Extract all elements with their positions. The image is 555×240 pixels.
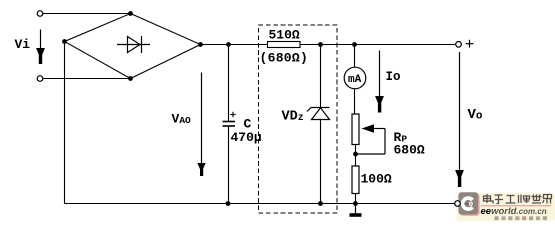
glyph gong xyxy=(506,196,516,204)
node: capacitor bottom junction xyxy=(226,201,231,206)
logo red underline xyxy=(481,205,551,206)
svg-text:mA: mA xyxy=(348,74,362,86)
eeworld logo background xyxy=(457,193,555,221)
wire bridge right vertex to resistor 510 xyxy=(201,44,268,46)
wire resistor 510 to + output terminal xyxy=(300,44,455,46)
glyph zi xyxy=(495,195,504,204)
node: ammeter branch top junction xyxy=(352,42,357,47)
svg-text:(680Ω): (680Ω) xyxy=(260,51,309,66)
svg-text:510Ω: 510Ω xyxy=(269,28,300,43)
Rp wiper arrow xyxy=(356,124,386,154)
glyph dian xyxy=(484,194,494,204)
svg-text:680Ω: 680Ω xyxy=(394,143,425,158)
logo icon gray square xyxy=(459,192,479,214)
node: zener bottom junction xyxy=(318,201,323,206)
glyph shi xyxy=(532,195,542,204)
logo icon pink shadow xyxy=(460,194,480,216)
wire capacitor top lead xyxy=(228,45,230,122)
glyph cheng xyxy=(519,195,530,204)
svg-text:100Ω: 100Ω xyxy=(361,172,392,187)
logo icon white C xyxy=(461,196,474,211)
logo chinese title: pseudo glyphs 电子工程世界 xyxy=(484,194,552,204)
input terminal bottom xyxy=(37,76,43,82)
wire bottom input to bridge bottom vertex xyxy=(43,78,129,80)
node: bridge bottom vertex xyxy=(128,76,133,81)
ground xyxy=(350,203,362,217)
output terminal + (top right) xyxy=(456,42,462,48)
node: capacitor top junction xyxy=(226,42,231,47)
wire ammeter top lead xyxy=(354,45,356,68)
input terminal top xyxy=(37,11,43,17)
zener diode VDz xyxy=(307,108,330,120)
node: bridge right vertex xyxy=(198,42,203,47)
wire ammeter to Rp xyxy=(354,89,356,115)
resistor R 510 body xyxy=(268,42,301,48)
label + (output polarity) xyxy=(466,40,474,48)
wire zener bottom lead xyxy=(320,120,322,204)
wire bridge left vertex down to bottom rail xyxy=(64,42,66,204)
wire zener top lead xyxy=(320,45,322,108)
bottom rail wire xyxy=(65,203,455,205)
glyph jie xyxy=(543,195,552,204)
node: zener top junction xyxy=(318,42,323,47)
node: ground junction xyxy=(353,201,358,206)
svg-text:eeworld.com.cn: eeworld.com.cn xyxy=(481,206,547,217)
wire Rp bottom to junction node xyxy=(355,145,357,167)
Vo annotation arrow xyxy=(455,52,464,187)
diode inside bridge xyxy=(117,36,150,53)
capacitor polarity + xyxy=(230,112,235,117)
output terminal bottom right xyxy=(455,201,461,207)
bridge rectifier diamond xyxy=(65,14,201,79)
wire top input to bridge top vertex xyxy=(43,13,129,15)
capacitor C plates xyxy=(223,122,236,127)
svg-text:Io: Io xyxy=(386,70,401,84)
resistor 100 ohm body xyxy=(352,166,359,194)
logo icon eye ring xyxy=(469,202,473,206)
svg-text:Vi: Vi xyxy=(15,37,31,52)
node: Rp wiper junction xyxy=(353,152,358,157)
ammeter mA xyxy=(344,67,366,89)
potentiometer Rp body xyxy=(352,114,359,145)
Io annotation arrow xyxy=(375,51,384,113)
wire stub visible through logo xyxy=(465,203,475,204)
Vi annotation arrow xyxy=(36,30,45,65)
wire 100 ohm to bottom rail xyxy=(355,194,357,204)
logo tiny slogan dashes xyxy=(495,216,548,220)
svg-text:470µ: 470µ xyxy=(231,130,262,145)
node: bridge left vertex xyxy=(62,39,67,44)
node: bridge top vertex xyxy=(128,11,133,16)
wire capacitor bottom lead xyxy=(228,126,230,204)
VAO annotation arrow xyxy=(197,73,205,177)
dashed regulator module box xyxy=(259,25,338,213)
